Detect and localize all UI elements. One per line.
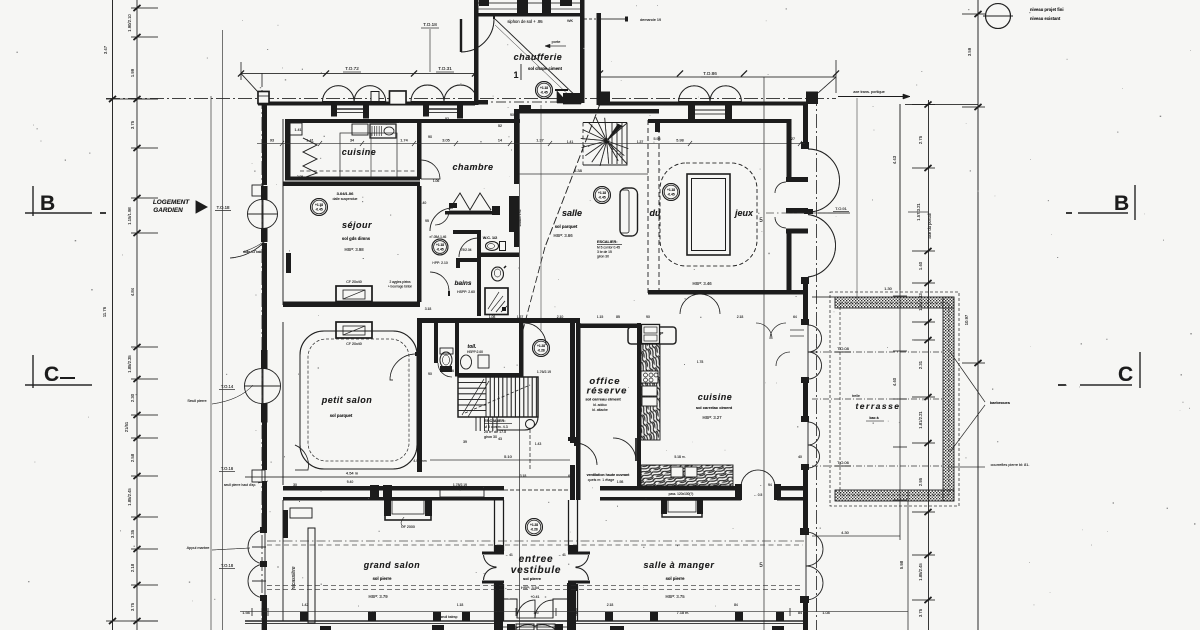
svg-text:chambre: chambre	[452, 162, 493, 172]
top outer wall west wing	[258, 102, 475, 106]
dimension 5.10 hall	[430, 459, 570, 461]
svg-text:jeux: jeux	[734, 208, 754, 218]
svg-text:-0.45: -0.45	[667, 193, 674, 197]
NE corner pier	[806, 92, 818, 105]
svg-text:52: 52	[445, 117, 449, 121]
extension line x541	[540, 105, 542, 330]
right wall dim 10.97 bracket	[899, 104, 901, 290]
svg-text:+1.28: +1.28	[537, 344, 545, 348]
svg-text:CF 20x40: CF 20x40	[346, 280, 362, 284]
svg-text:27: 27	[791, 137, 795, 141]
terrasse dim ticks	[893, 296, 907, 500]
svg-text:sol carrelac ciment: sol carrelac ciment	[696, 405, 733, 410]
svg-text:4.54 mm: 4.54 mm	[413, 459, 426, 463]
billiard table	[687, 174, 730, 255]
window1 jambs below wall	[331, 106, 337, 117]
svg-text:21/51: 21/51	[124, 421, 129, 432]
main staircase treads	[458, 377, 536, 417]
porch door boxes	[516, 624, 534, 630]
right outer wall segments	[803, 104, 808, 149]
svg-text:+1.18: +1.18	[436, 243, 444, 247]
top dimension line y73	[241, 73, 475, 75]
svg-text:dalle suspendue: dalle suspendue	[333, 197, 358, 201]
chaufferie right corridor dashes	[584, 18, 596, 20]
svg-text:1.42: 1.42	[302, 603, 309, 607]
chambre door arc bottom	[435, 211, 449, 225]
terrasse band bottom	[835, 490, 954, 501]
top wall small marks	[371, 92, 379, 102]
svg-text:T.O.31: T.O.31	[438, 66, 452, 71]
svg-text:T.O.14: T.O.14	[221, 384, 234, 389]
top-right corner diagonal	[818, 77, 836, 93]
svg-text:HSP: 3.79: HSP: 3.79	[368, 594, 388, 599]
svg-text:niveau existant: niveau existant	[1030, 16, 1061, 21]
left wall step sill sejour	[252, 185, 263, 196]
hall top wall y320	[417, 318, 580, 323]
cuisine-chambre divider wall	[417, 119, 422, 179]
sejour bottom wall	[283, 302, 420, 308]
svg-text:5.98: 5.98	[899, 560, 904, 569]
left outer line ticks	[106, 98, 158, 100]
wc floor divider black	[481, 253, 519, 258]
beam dash-dot line 1	[267, 540, 806, 542]
svg-text:courrefles pierre bl: 81.: courrefles pierre bl: 81.	[991, 463, 1030, 467]
cuisine radiator zigzag	[303, 138, 317, 178]
left inner wall line	[282, 119, 284, 305]
svg-text:3.47: 3.47	[103, 45, 108, 54]
kitchen cooker cabinet	[641, 324, 660, 344]
svg-text:+1.28: +1.28	[530, 523, 538, 527]
petit salon east wall	[417, 323, 422, 472]
grand salon north wall niche	[440, 490, 484, 497]
B axis tick right	[908, 211, 928, 213]
petit salon corner door reveal	[295, 445, 309, 470]
svg-text:T.O.18: T.O.18	[423, 22, 437, 27]
jeux east inner wall	[787, 119, 792, 177]
svg-text:1.40: 1.40	[420, 201, 427, 205]
dimension chain y143	[257, 143, 805, 145]
svg-text:+0.41: +0.41	[530, 595, 539, 599]
svg-text:5.18 m.: 5.18 m.	[674, 455, 685, 459]
svg-text:-0.45: -0.45	[540, 91, 547, 95]
kitchen-terrace door center arcs	[776, 352, 790, 366]
svg-text:1.15/1.98: 1.15/1.98	[127, 207, 132, 225]
svg-text:52: 52	[498, 124, 502, 128]
svg-text:giron 30: giron 30	[597, 255, 609, 259]
svg-text:3.04/1.06: 3.04/1.06	[337, 191, 354, 196]
svg-text:3.75: 3.75	[918, 608, 923, 617]
section marker C left	[32, 355, 34, 388]
svg-text:niveau projet fini: niveau projet fini	[1030, 7, 1064, 12]
svg-text:5: 5	[759, 563, 763, 569]
svg-text:3 br de 15: 3 br de 15	[597, 250, 612, 254]
svg-text:HSPP: 2.60: HSPP: 2.60	[457, 290, 475, 294]
svg-text:60: 60	[568, 474, 572, 478]
svg-text:1.57/3.21: 1.57/3.21	[916, 203, 921, 221]
jeux level circle	[663, 184, 680, 201]
inner top wall salle de jeux	[659, 119, 788, 123]
svg-text:1.41: 1.41	[567, 140, 574, 144]
svg-text:seuil pierre haut d'ap.: seuil pierre haut d'ap.	[224, 483, 256, 487]
svg-text:40: 40	[798, 455, 802, 459]
svg-text:racassière: racassière	[291, 566, 297, 589]
svg-text:← 0.5: ← 0.5	[754, 493, 763, 497]
logement gardien arrow	[196, 201, 207, 213]
jeux carpet dashed rounded rect	[660, 163, 757, 266]
vestibule level circle	[526, 519, 543, 536]
jeux interior door arcs south	[680, 294, 700, 314]
svg-text:← 41: ← 41	[558, 553, 566, 557]
terrasse band top	[835, 297, 954, 308]
sejour butterfly door	[248, 200, 263, 215]
chambre wardrobe zigzag	[449, 193, 491, 210]
svg-text:1.78: 1.78	[697, 360, 704, 364]
extension line left x211	[210, 96, 212, 630]
svg-text:séjour: séjour	[342, 220, 372, 230]
bains north wall	[453, 230, 481, 234]
bains door arc upper	[459, 238, 478, 257]
svg-text:M 5 contor 0.45: M 5 contor 0.45	[597, 246, 620, 250]
svg-text:sol chape ciment: sol chape ciment	[528, 66, 563, 71]
hall door arc	[524, 323, 546, 345]
svg-text:giron 30: giron 30	[484, 435, 497, 439]
left outer wall segments	[262, 104, 267, 185]
svg-text:26: 26	[450, 369, 454, 373]
salle a manger north wall	[600, 486, 741, 491]
svg-text:sol parquet: sol parquet	[330, 413, 353, 418]
shutter arcs window 3 east wing	[679, 86, 710, 102]
svg-text:+ bourrage béton: + bourrage béton	[388, 285, 413, 289]
svg-text:Seuil pierre: Seuil pierre	[187, 399, 206, 403]
svg-text:T.O.86: T.O.86	[703, 71, 717, 76]
svg-text:1.06: 1.06	[433, 179, 440, 183]
svg-text:HPP: 2.10: HPP: 2.10	[432, 261, 448, 265]
spiral stair right treads	[612, 123, 627, 164]
small corridor walls x437	[434, 323, 438, 363]
svg-text:2.95: 2.95	[918, 477, 923, 486]
svg-text:93: 93	[270, 139, 274, 143]
horizontal axis dash-dot y96	[106, 98, 836, 100]
svg-text:11.76: 11.76	[102, 306, 107, 317]
svg-text:T.O.16: T.O.16	[221, 466, 234, 471]
sejour big swing arc	[230, 240, 266, 258]
vestibule west wall	[494, 500, 496, 551]
svg-text:3.75: 3.75	[130, 602, 135, 611]
salle-jeux dashed divider	[647, 120, 649, 295]
svg-text:3.75: 3.75	[130, 120, 135, 129]
axe portique arrow	[838, 96, 910, 98]
svg-text:chaufferie: chaufferie	[514, 52, 563, 62]
beam dash lines 2	[267, 585, 803, 587]
svg-text:M 5 contm. 4.3: M 5 contm. 4.3	[484, 425, 508, 429]
office-vestibule wall	[576, 443, 581, 500]
svg-text:T.O.06: T.O.06	[837, 460, 850, 465]
right wall jamb piers	[801, 142, 809, 149]
sejour west radiator	[286, 253, 291, 273]
svg-text:+1.18: +1.18	[598, 191, 606, 195]
section marker B left	[32, 186, 34, 216]
shutter arcs window 1	[323, 86, 355, 102]
bottom edge black marks	[320, 626, 331, 630]
svg-text:B: B	[40, 192, 55, 215]
cuisine NW fridge	[288, 123, 302, 135]
svg-text:trelle: trelle	[852, 394, 860, 398]
demande label right of chaufferie	[601, 18, 625, 20]
chaufferie level circle	[536, 82, 553, 99]
porch below arcs	[514, 625, 556, 630]
terrasse dimension vertical	[899, 104, 901, 540]
svg-text:salle à manger: salle à manger	[644, 560, 715, 570]
svg-text:1.81/2.21: 1.81/2.21	[918, 411, 923, 429]
svg-text:30: 30	[298, 301, 302, 305]
svg-text:T.O.08: T.O.08	[837, 346, 850, 351]
grand salon north wall	[283, 486, 504, 491]
left dimension ticks	[131, 5, 158, 624]
svg-text:4.84: 4.84	[130, 287, 135, 296]
svg-text:ventilation haute ouvrant: ventilation haute ouvrant	[587, 473, 631, 477]
left wall step sill petit salon	[252, 470, 265, 482]
svg-text:WK: WK	[567, 19, 574, 23]
svg-text:36: 36	[410, 301, 414, 305]
cuisine west inner wall	[285, 119, 291, 180]
svg-text:4.43: 4.43	[892, 155, 897, 164]
right dimension ticks	[912, 11, 985, 603]
hall west wall x520	[519, 320, 524, 377]
svg-text:entree: entree	[519, 554, 554, 565]
terrasse top-left dash stub	[812, 296, 835, 298]
sejour east wall	[417, 186, 422, 302]
svg-text:-0.28: -0.28	[537, 349, 544, 353]
svg-text:HSP: 3.75: HSP: 3.75	[665, 594, 685, 599]
cuisine terrace door arcs 1	[808, 325, 822, 352]
bottom outer wall line	[245, 620, 806, 622]
svg-text:B: B	[1114, 192, 1129, 215]
grand salon chimney piers	[370, 485, 379, 500]
vestibule east wall	[568, 500, 570, 551]
cuisine dashed table	[300, 170, 415, 172]
svg-text:3.05: 3.05	[442, 139, 449, 143]
jeux french door arcs	[808, 149, 840, 212]
svg-text:HSP: 3.66: HSP: 3.66	[553, 233, 573, 238]
dimension 5.38 line	[519, 173, 648, 175]
pier left of chaufferie east wing	[598, 92, 610, 102]
kitchen west wall	[637, 323, 641, 486]
corridor door arc from sejour	[430, 208, 453, 231]
staircase hatch diagonals	[462, 379, 489, 417]
svg-text:cuisine: cuisine	[698, 392, 733, 402]
svg-text:demande 19: demande 19	[640, 18, 661, 22]
svg-text:sol pierre: sol pierre	[373, 576, 393, 581]
chaufferie top edge piers	[517, 0, 528, 13]
svg-text:43: 43	[498, 437, 502, 441]
svg-text:+1.18: +1.18	[315, 203, 323, 207]
bottom wall window jambs	[300, 612, 308, 621]
svg-text:3.59: 3.59	[967, 47, 972, 56]
office door arc	[575, 443, 597, 465]
B axis dash near jeux doors	[766, 212, 844, 214]
salle a manger east bay arcs	[806, 532, 823, 566]
svg-text:Appui marbre: Appui marbre	[187, 546, 210, 550]
svg-text:scellem 1.53: scellem 1.53	[518, 209, 522, 226]
salle top wall	[514, 109, 659, 114]
svg-text:GARDIEN: GARDIEN	[153, 207, 183, 214]
svg-text:1.76/2.19: 1.76/2.19	[537, 370, 551, 374]
kitchen south double door arcs	[741, 470, 758, 487]
chimney block in top wall	[390, 91, 407, 105]
svg-text:id. attache: id. attache	[592, 408, 608, 412]
kitchen sink boxes bottom	[671, 467, 683, 477]
svg-text:2.95: 2.95	[297, 175, 304, 179]
svg-text:+1.18: +1.18	[667, 188, 675, 192]
grand salon west bay arcs	[248, 530, 265, 564]
jeux door reveal walls	[786, 177, 808, 182]
wc toilet	[486, 242, 499, 251]
shower tray	[485, 288, 508, 315]
svg-text:5.98: 5.98	[676, 139, 683, 143]
grand salon flue strip	[308, 528, 315, 623]
stair direction dashes below	[529, 429, 531, 470]
svg-text:5.98: 5.98	[654, 137, 661, 141]
svg-text:quels m: 1 étage: quels m: 1 étage	[588, 478, 615, 482]
sejour top wall	[283, 182, 420, 187]
svg-text:-0.45: -0.45	[436, 248, 443, 252]
svg-text:4.54 m: 4.54 m	[346, 471, 359, 476]
svg-text:5: 5	[759, 218, 763, 224]
toil room walls	[455, 320, 459, 376]
top-left corner diagonal	[241, 74, 258, 93]
vestibule north opening dash	[504, 489, 568, 491]
svg-text:LOGEMENT: LOGEMENT	[153, 199, 190, 206]
svg-text:CF 2000: CF 2000	[401, 525, 415, 529]
svg-text:HSP: 3.98: HSP: 3.98	[344, 247, 364, 252]
hall level circle	[533, 340, 550, 357]
kitchen cooktop circles	[641, 371, 658, 383]
svg-text:T.O.18: T.O.18	[221, 563, 234, 568]
staircase handrail curve	[497, 417, 538, 431]
spiral stair box	[583, 123, 627, 166]
extra tiny dimension numbers	[293, 113, 802, 607]
dimension line right outer vertical	[977, 0, 979, 630]
kitchen counter hatch left	[641, 344, 660, 440]
diagonal dash continuation	[523, 247, 545, 330]
svg-text:1: 1	[513, 70, 518, 80]
salle level circle	[594, 187, 611, 204]
svg-text:-0.45: -0.45	[598, 196, 605, 200]
svg-text:1.15: 1.15	[597, 315, 604, 319]
vestibule east door arcs	[576, 555, 589, 567]
svg-text:1.37: 1.37	[536, 139, 543, 143]
wc west wall black	[477, 234, 481, 316]
svg-text:1.40: 1.40	[918, 261, 923, 270]
svg-text:2.31: 2.31	[918, 360, 923, 369]
svg-text:1.90/2.10: 1.90/2.10	[127, 14, 132, 32]
entrance porch piers	[494, 583, 503, 630]
legend circle niveau	[986, 4, 1011, 29]
svg-text:90: 90	[510, 113, 514, 117]
svg-text:2.75: 2.75	[918, 135, 923, 144]
petit salon carpet	[300, 331, 417, 469]
window2 jambs below wall	[423, 106, 429, 117]
petit salon butterfly door	[245, 369, 263, 387]
svg-text:1.78/2.19: 1.78/2.19	[453, 483, 467, 487]
terrasse band right	[943, 297, 954, 501]
svg-text:W.C. 1/2: W.C. 1/2	[483, 236, 498, 240]
svg-text:bac à: bac à	[869, 416, 878, 420]
kitchen sink boxes left	[642, 386, 657, 396]
kitchen mid window arcs x790	[790, 330, 804, 336]
chaufferie diagonal lines	[495, 19, 581, 101]
bidet	[492, 267, 504, 281]
svg-text:salle: salle	[562, 208, 582, 218]
svg-text:-0.28: -0.28	[530, 528, 537, 532]
svg-text:ESCALIER:: ESCALIER:	[484, 418, 506, 423]
office monte-charge box	[628, 327, 676, 344]
staircase lower return treads	[476, 417, 493, 431]
svg-text:90: 90	[646, 315, 650, 319]
office west wall	[576, 323, 581, 443]
kitchen door arc to office	[613, 438, 636, 461]
svg-text:pass. 120x100(?): pass. 120x100(?)	[669, 492, 694, 496]
office-vestibule wall stub y438	[568, 437, 578, 441]
svg-text:petit salon: petit salon	[321, 395, 373, 405]
staircase boundary	[458, 377, 538, 417]
cuisine terrace door arcs 2	[808, 422, 820, 445]
svg-text:HSPP:2.60: HSPP:2.60	[467, 350, 483, 354]
svg-text:1.85/2.45: 1.85/2.45	[918, 563, 923, 581]
svg-text:sol carreau ciment: sol carreau ciment	[585, 397, 621, 402]
svg-text:85: 85	[616, 315, 620, 319]
svg-text:3.35: 3.35	[130, 529, 135, 538]
svg-text:90: 90	[428, 135, 432, 139]
svg-text:1.30: 1.30	[884, 287, 891, 291]
chaufferie walls	[474, 0, 479, 105]
entrance niche steps	[503, 599, 567, 618]
svg-text:1.43: 1.43	[535, 442, 542, 446]
svg-text:vestibule: vestibule	[511, 565, 562, 576]
spiral stair fan	[581, 117, 629, 166]
shutter arcs window 2	[411, 85, 444, 101]
svg-text:n°-05A 1.46: n°-05A 1.46	[430, 235, 447, 239]
toil fixtures	[440, 352, 452, 368]
kitchen counter hatch bottom	[641, 465, 733, 486]
svg-text:3.18: 3.18	[520, 474, 527, 478]
svg-text:seuil balnsp: seuil balnsp	[441, 615, 458, 619]
entrance door arcs	[517, 600, 535, 618]
dimension line right inner vertical	[928, 100, 930, 630]
svg-text:1.18: 1.18	[457, 603, 464, 607]
stair up arrow dash	[465, 385, 530, 413]
right tick bridge y104	[905, 104, 978, 106]
svg-text:79/2.04: 79/2.04	[461, 248, 472, 252]
hall-vestibule wall stub	[570, 465, 575, 500]
svg-text:1.37: 1.37	[637, 140, 644, 144]
cuisine door gap arc to corridor	[421, 160, 440, 179]
chaufferie black triangle vent	[557, 91, 568, 103]
svg-text:CF 20x40: CF 20x40	[346, 342, 362, 346]
extension line left x222	[222, 30, 224, 630]
svg-text:5.10: 5.10	[504, 454, 513, 459]
svg-text:14: 14	[498, 139, 502, 143]
svg-text:HSP: 3.46: HSP: 3.46	[692, 281, 712, 286]
svg-text:94: 94	[768, 483, 772, 487]
bains step wall	[456, 258, 481, 262]
svg-text:1.85/2.45: 1.85/2.45	[127, 488, 132, 506]
salle-jeux pocket door	[620, 188, 638, 236]
svg-text:sol parquet: sol parquet	[555, 224, 578, 229]
chaufferie door arc	[461, 19, 494, 52]
svg-text:du: du	[650, 208, 661, 218]
chaufferie bottom dash line	[478, 101, 580, 103]
